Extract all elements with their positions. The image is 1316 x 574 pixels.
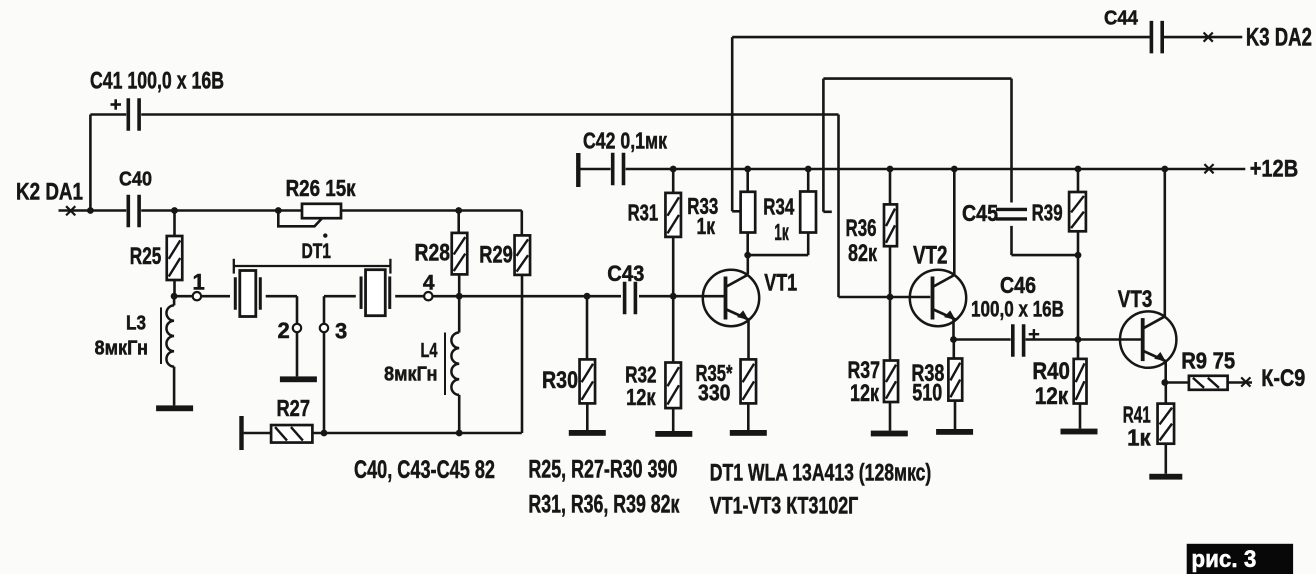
- svg-text:рис. 3: рис. 3: [1191, 546, 1256, 573]
- svg-text:VT1: VT1: [764, 270, 797, 297]
- svg-text:R9 75: R9 75: [1181, 348, 1235, 374]
- svg-text:DT1 WLA 13А413 (128мкс): DT1 WLA 13А413 (128мкс): [710, 460, 932, 487]
- svg-text:12к: 12к: [626, 384, 656, 410]
- svg-text:C44: C44: [1104, 8, 1139, 30]
- svg-text:R34: R34: [763, 194, 794, 220]
- svg-text:C46: C46: [1000, 272, 1036, 298]
- svg-text:510: 510: [912, 380, 942, 407]
- svg-text:+12В: +12В: [1250, 156, 1299, 183]
- svg-text:R40: R40: [1032, 358, 1070, 385]
- svg-text:100,0 x 16В: 100,0 x 16В: [971, 297, 1064, 322]
- svg-text:R39: R39: [1032, 200, 1063, 226]
- svg-text:3: 3: [335, 319, 347, 344]
- svg-text:R36: R36: [846, 215, 877, 242]
- svg-text:R29: R29: [479, 242, 513, 269]
- svg-text:R31, R36, R39 82к: R31, R36, R39 82к: [528, 490, 679, 518]
- svg-text:2: 2: [278, 318, 290, 343]
- svg-text:R28: R28: [415, 240, 451, 267]
- svg-text:82к: 82к: [848, 240, 878, 267]
- svg-text:8мкГн: 8мкГн: [95, 338, 149, 360]
- svg-text:12к: 12к: [850, 380, 880, 407]
- svg-text:R26 15к: R26 15к: [286, 175, 356, 201]
- svg-text:C40: C40: [119, 168, 152, 190]
- svg-text:R25: R25: [130, 243, 162, 270]
- svg-text:R30: R30: [542, 367, 578, 394]
- svg-text:L3: L3: [126, 313, 146, 335]
- svg-text:1: 1: [193, 270, 205, 295]
- svg-text:C45: C45: [962, 200, 998, 226]
- svg-text:L4: L4: [421, 340, 439, 362]
- svg-text:8мкГн: 8мкГн: [384, 364, 438, 386]
- svg-text:12к: 12к: [1035, 383, 1069, 410]
- svg-text:R25, R27-R30 390: R25, R27-R30 390: [528, 456, 677, 484]
- svg-text:VT2: VT2: [913, 242, 948, 270]
- svg-text:1к: 1к: [774, 219, 789, 245]
- svg-text:K3 DA2: K3 DA2: [1246, 24, 1312, 52]
- svg-text:4: 4: [423, 272, 435, 295]
- svg-text:VT3: VT3: [1118, 286, 1153, 313]
- svg-text:1к: 1к: [697, 213, 716, 239]
- svg-text:C43: C43: [607, 261, 644, 286]
- svg-text:330: 330: [698, 380, 731, 406]
- svg-text:C41 100,0 x 16В: C41 100,0 x 16В: [90, 68, 224, 95]
- svg-text:К-С9: К-С9: [1261, 365, 1305, 392]
- svg-text:1к: 1к: [1127, 425, 1151, 451]
- svg-text:K2 DA1: K2 DA1: [16, 179, 83, 206]
- svg-text:R27: R27: [277, 395, 311, 421]
- svg-text:DT1: DT1: [302, 240, 332, 263]
- svg-text:C42 0,1мк: C42 0,1мк: [583, 128, 667, 154]
- svg-text:C40, C43-C45 82: C40, C43-C45 82: [354, 456, 495, 484]
- svg-text:VT1-VT3 КТ3102Г: VT1-VT3 КТ3102Г: [710, 493, 859, 520]
- svg-text:R31: R31: [628, 200, 659, 226]
